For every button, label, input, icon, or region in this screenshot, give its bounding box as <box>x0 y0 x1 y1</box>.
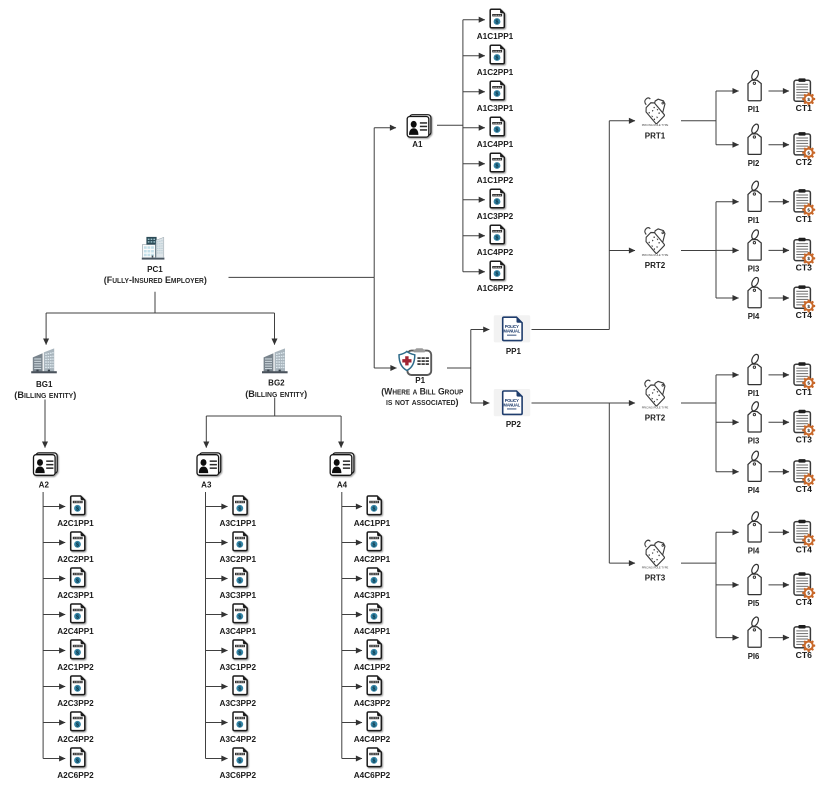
svg-text:PI4: PI4 <box>748 312 760 321</box>
svg-text:PRT3: PRT3 <box>645 574 666 583</box>
svg-text:BG2: BG2 <box>268 379 285 388</box>
svg-text:PRICING RULE TYPE: PRICING RULE TYPE <box>642 405 669 409</box>
svg-text:A1C4PP2: A1C4PP2 <box>477 248 514 257</box>
svg-text:A4C1PP2: A4C1PP2 <box>354 663 391 672</box>
svg-text:A1C1PP1: A1C1PP1 <box>477 32 514 41</box>
svg-text:A4C2PP1: A4C2PP1 <box>354 555 391 564</box>
svg-text:CT4: CT4 <box>796 485 813 494</box>
svg-text:PI3: PI3 <box>748 265 760 274</box>
svg-text:PI4: PI4 <box>748 486 760 495</box>
svg-text:CT3: CT3 <box>796 264 813 273</box>
svg-text:A2C6PP2: A2C6PP2 <box>57 771 94 780</box>
svg-text:A3C4PP2: A3C4PP2 <box>220 735 257 744</box>
svg-text:A2C1PP1: A2C1PP1 <box>57 519 94 528</box>
svg-text:A1C2PP1: A1C2PP1 <box>477 68 514 77</box>
svg-text:PI3: PI3 <box>748 437 760 446</box>
svg-text:(Where a Bill Group: (Where a Bill Group <box>381 385 463 396</box>
svg-text:PRT2: PRT2 <box>645 414 666 423</box>
svg-text:A3C3PP1: A3C3PP1 <box>220 591 257 600</box>
svg-text:A1C3PP1: A1C3PP1 <box>477 104 514 113</box>
svg-text:A2C4PP1: A2C4PP1 <box>57 627 94 636</box>
svg-text:A1C3PP2: A1C3PP2 <box>477 212 514 221</box>
svg-text:A1C6PP2: A1C6PP2 <box>477 284 514 293</box>
svg-text:A4C3PP2: A4C3PP2 <box>354 699 391 708</box>
svg-text:A2: A2 <box>39 481 50 490</box>
svg-text:CT1: CT1 <box>796 215 813 224</box>
svg-text:PI6: PI6 <box>748 652 760 661</box>
svg-text:A2C2PP1: A2C2PP1 <box>57 555 94 564</box>
svg-text:CT1: CT1 <box>796 104 813 113</box>
svg-text:PI1: PI1 <box>748 216 760 225</box>
svg-text:CT6: CT6 <box>796 651 813 660</box>
svg-text:A4C4PP1: A4C4PP1 <box>354 627 391 636</box>
svg-text:A4C3PP1: A4C3PP1 <box>354 591 391 600</box>
svg-text:A1C1PP2: A1C1PP2 <box>477 176 514 185</box>
svg-text:CT3: CT3 <box>796 436 813 445</box>
svg-text:CT1: CT1 <box>796 388 813 397</box>
svg-text:A2C3PP1: A2C3PP1 <box>57 591 94 600</box>
svg-text:PI1: PI1 <box>748 105 760 114</box>
svg-text:CT4: CT4 <box>796 546 813 555</box>
svg-text:PI4: PI4 <box>748 547 760 556</box>
svg-text:A4: A4 <box>337 481 348 490</box>
svg-text:PI5: PI5 <box>748 599 760 608</box>
svg-text:A3C3PP2: A3C3PP2 <box>220 699 257 708</box>
svg-text:PRICING RULE TYPE: PRICING RULE TYPE <box>642 123 669 127</box>
svg-text:CT4: CT4 <box>796 598 813 607</box>
svg-text:A2C3PP2: A2C3PP2 <box>57 699 94 708</box>
svg-text:(Fully-Insured Employer): (Fully-Insured Employer) <box>104 274 207 285</box>
svg-text:A3: A3 <box>201 481 212 490</box>
svg-text:A3C2PP1: A3C2PP1 <box>220 555 257 564</box>
svg-text:A3C4PP1: A3C4PP1 <box>220 627 257 636</box>
svg-text:PI2: PI2 <box>748 159 760 168</box>
svg-text:A1: A1 <box>412 140 423 149</box>
svg-text:PC1: PC1 <box>147 265 163 274</box>
svg-text:P1: P1 <box>415 376 425 385</box>
svg-text:PRT1: PRT1 <box>645 131 666 140</box>
svg-text:PP1: PP1 <box>506 347 522 356</box>
svg-text:CT4: CT4 <box>796 311 813 320</box>
svg-text:A3C1PP1: A3C1PP1 <box>220 519 257 528</box>
svg-text:A4C1PP1: A4C1PP1 <box>354 519 391 528</box>
svg-text:A4C6PP2: A4C6PP2 <box>354 771 391 780</box>
svg-text:CT2: CT2 <box>796 158 813 167</box>
svg-text:PP2: PP2 <box>506 420 522 429</box>
svg-text:A2C4PP2: A2C4PP2 <box>57 735 94 744</box>
svg-text:PRT2: PRT2 <box>645 261 666 270</box>
svg-text:(Billing entity): (Billing entity) <box>245 388 307 399</box>
svg-text:A4C4PP2: A4C4PP2 <box>354 735 391 744</box>
svg-text:(Billing entity): (Billing entity) <box>14 389 76 400</box>
svg-text:A3C6PP2: A3C6PP2 <box>220 771 257 780</box>
svg-text:A2C1PP2: A2C1PP2 <box>57 663 94 672</box>
svg-text:A3C1PP2: A3C1PP2 <box>220 663 257 672</box>
svg-text:PRICING RULE TYPE: PRICING RULE TYPE <box>642 253 669 257</box>
svg-text:A1C4PP1: A1C4PP1 <box>477 140 514 149</box>
svg-text:is not associated): is not associated) <box>386 396 459 407</box>
svg-text:PI1: PI1 <box>748 389 760 398</box>
svg-text:PRICING RULE TYPE: PRICING RULE TYPE <box>642 565 669 569</box>
svg-text:BG1: BG1 <box>36 380 53 389</box>
